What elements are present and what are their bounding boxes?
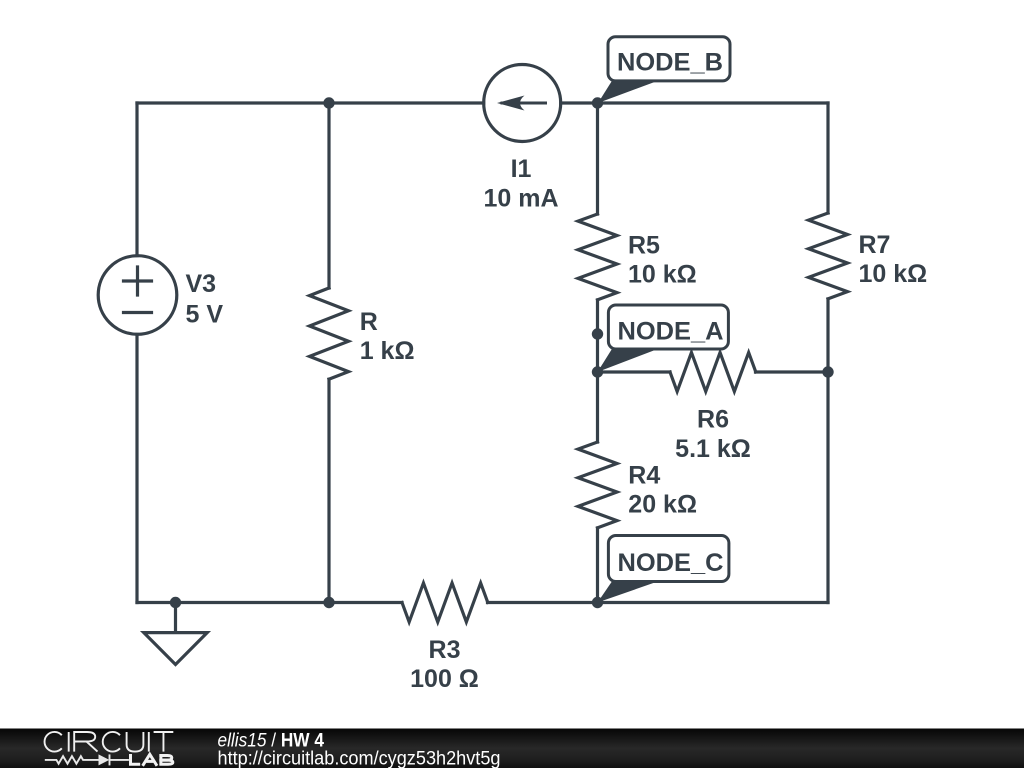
- svg-text:20 kΩ: 20 kΩ: [628, 491, 697, 519]
- node A callout box: [608, 305, 728, 349]
- svg-text:100 Ω: 100 Ω: [410, 665, 479, 693]
- ground stem: [174, 603, 177, 633]
- I1 arrow head: [497, 96, 525, 111]
- CircuitLab logo wordmark CIRCUIT (thin strokes): [45, 732, 174, 752]
- wire node B branch (top rail to R5): [596, 103, 599, 214]
- wire top rail right (I1 to R7): [561, 101, 828, 104]
- resistor R4 zigzag: [578, 442, 617, 528]
- node C callout tail: [598, 581, 659, 602]
- svg-text:R5: R5: [628, 232, 660, 260]
- node B callout tail: [598, 81, 658, 103]
- ground triangle: [144, 633, 207, 665]
- wire node A horizontal (to R6): [598, 370, 671, 373]
- wire R branch lower (R to bottom rail): [327, 379, 330, 602]
- svg-text:R4: R4: [628, 462, 660, 490]
- wire R6 to right rail: [756, 370, 829, 373]
- V3 plus sign: [124, 267, 152, 295]
- resistor R6 zigzag: [670, 353, 756, 392]
- voltage source V3 circle: [98, 256, 177, 335]
- svg-text:5.1 kΩ: 5.1 kΩ: [675, 435, 751, 463]
- svg-text:NODE_B: NODE_B: [617, 49, 723, 77]
- wire R branch upper (top rail to R): [327, 103, 330, 288]
- svg-text:http://circuitlab.com/cygz53h2: http://circuitlab.com/cygz53h2hvt5g: [218, 748, 501, 768]
- logo diode triangle: [99, 754, 110, 765]
- resistor R7 zigzag: [809, 213, 848, 299]
- current source I1 circle: [484, 65, 561, 142]
- wire node A to R4: [596, 372, 599, 442]
- wire top rail left (V3 to I1): [137, 101, 484, 104]
- wire left rail lower (V3 to bottom rail): [135, 334, 138, 602]
- svg-text:5 V: 5 V: [186, 300, 224, 328]
- svg-text:R3: R3: [429, 636, 461, 664]
- junction dot below R5: [592, 328, 603, 339]
- wire right rail lower (R7 to bottom rail): [826, 299, 829, 603]
- wire bottom rail left (to R3): [137, 601, 402, 604]
- svg-text:10 mA: 10 mA: [483, 184, 558, 212]
- junction dot R6 right: [822, 366, 833, 377]
- resistor R5 zigzag: [578, 214, 617, 300]
- wire bottom rail right (R3 to right rail): [488, 601, 829, 604]
- svg-text:10 kΩ: 10 kΩ: [628, 261, 697, 289]
- junction dot R branch bottom: [323, 597, 334, 608]
- V3 minus sign: [124, 311, 152, 314]
- svg-text:NODE_A: NODE_A: [618, 318, 724, 346]
- svg-text:V3: V3: [186, 270, 217, 298]
- svg-text:R: R: [360, 308, 378, 336]
- svg-text:NODE_C: NODE_C: [618, 549, 724, 577]
- resistor R zigzag: [310, 288, 349, 379]
- resistor R3 zigzag: [402, 583, 488, 622]
- node C callout box: [608, 536, 729, 582]
- svg-text:1 kΩ: 1 kΩ: [360, 337, 415, 365]
- node A callout tail: [598, 349, 659, 372]
- junction dot ground: [170, 597, 181, 608]
- junction dot node B: [592, 97, 603, 108]
- footer bar: [0, 729, 1024, 769]
- svg-text:R6: R6: [697, 405, 729, 433]
- junction dot top R branch: [323, 97, 334, 108]
- wire left rail upper (top rail to V3): [135, 103, 138, 256]
- svg-text:R7: R7: [859, 231, 891, 259]
- wire R4 to node C: [596, 528, 599, 603]
- node B callout box: [608, 37, 730, 81]
- I1 arrow shaft: [502, 102, 546, 105]
- junction dot node A: [592, 366, 603, 377]
- junction dot node C: [592, 597, 603, 608]
- wire R5 to node A: [596, 300, 599, 372]
- svg-text:I1: I1: [511, 155, 532, 183]
- svg-text:10 kΩ: 10 kΩ: [859, 260, 928, 288]
- wire right rail upper (top rail to R7): [826, 103, 829, 213]
- CircuitLab logo wordmark LAB (drawn): [129, 754, 173, 766]
- logo resistor-diode glyph: [45, 754, 129, 765]
